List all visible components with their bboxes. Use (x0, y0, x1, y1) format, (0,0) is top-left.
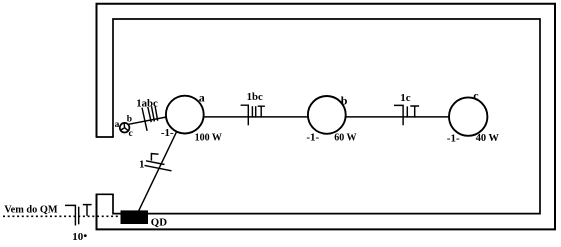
feed conductor tick (78, 207, 80, 225)
svg-text:a: a (199, 91, 205, 105)
svg-text:10: 10 (72, 231, 84, 243)
svg-text:-1-: -1- (306, 132, 319, 144)
feed dotted line (3, 215, 121, 217)
svg-text:1bc: 1bc (247, 91, 263, 103)
circuit 1 conductor tick (146, 161, 165, 165)
circuit 1 neutral flag (151, 154, 158, 161)
1c phase (410, 106, 419, 118)
lamp c (449, 97, 487, 135)
svg-text:100 W: 100 W (195, 133, 222, 144)
1c neutral (394, 105, 403, 125)
door cap bottom (96, 193, 114, 195)
1c tick c (406, 106, 408, 117)
outer wall (97, 4, 556, 230)
svg-text:c: c (129, 129, 133, 139)
tick c (155, 106, 158, 121)
svg-text:QD: QD (151, 217, 167, 229)
inner wall (113, 19, 540, 214)
feed phase conductor (83, 205, 92, 216)
switch three-section (120, 123, 130, 133)
circuit 1 conductor tick (145, 165, 172, 170)
svg-text:60 W: 60 W (334, 133, 356, 144)
lamp a (166, 96, 204, 134)
lamp b (308, 96, 346, 134)
bullet (84, 234, 87, 237)
wire switch to lamp a (128, 117, 167, 124)
svg-text:Vem do QM: Vem do QM (4, 205, 58, 216)
wire lamp a to lamp b (204, 116, 308, 118)
1bc phase (258, 106, 265, 117)
feed neutral conductor (65, 205, 75, 225)
svg-text:1abc: 1abc (136, 98, 158, 110)
svg-text:1c: 1c (400, 92, 411, 104)
1bc tick c (255, 106, 257, 117)
door cap top (96, 136, 114, 138)
circuit 1abc long tick (142, 108, 147, 131)
svg-text:-1-: -1- (161, 127, 174, 139)
tick a (148, 107, 151, 122)
tick b (152, 106, 155, 121)
svg-text:c: c (473, 88, 479, 102)
svg-text:a: a (115, 120, 120, 130)
distribution board QD (121, 210, 149, 224)
svg-text:b: b (341, 94, 348, 108)
1bc neutral (241, 105, 249, 125)
wire QD to lamp a (139, 132, 177, 211)
svg-text:-1-: -1- (447, 132, 460, 144)
1bc tick b (251, 106, 253, 117)
svg-text:40 W: 40 W (476, 133, 500, 144)
wire lamp b to lamp c (346, 116, 449, 118)
svg-text:1: 1 (139, 159, 145, 171)
